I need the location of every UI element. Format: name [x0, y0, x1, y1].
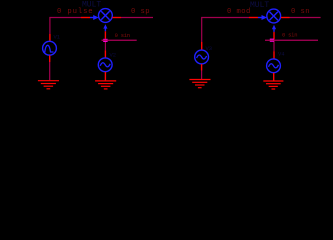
ground (under V1) — [38, 81, 59, 89]
pin stub (V1 bottom, red) — [49, 55, 51, 62]
svg-text:0 sin: 0 sin — [115, 32, 130, 39]
svg-text:MULT: MULT — [250, 1, 269, 10]
junction square node 0 sin right — [270, 39, 274, 42]
svg-text:0 sp: 0 sp — [131, 8, 150, 16]
svg-text:MULT: MULT — [82, 1, 101, 10]
pin stub (pulse source V1 top, red) — [49, 34, 51, 42]
multiplier U2 (circle with X) — [267, 9, 281, 23]
pin stub (U1 output, red) — [112, 17, 121, 19]
wire label line 0 sin right — [265, 39, 318, 41]
svg-text:V3: V3 — [206, 45, 213, 52]
pin stub (V3 bottom, red) — [201, 64, 203, 70]
svg-text:0 sin: 0 sin — [282, 32, 297, 39]
multiplier U1 (circle with X) — [99, 9, 113, 23]
pin stub (U1 bottom input, red) — [104, 31, 106, 38]
svg-text:0 mod: 0 mod — [227, 8, 251, 16]
pin stub (V4 bottom to ground, red) — [273, 73, 275, 81]
wire net "0 sn" (output) — [290, 17, 321, 19]
sine source V4 — [267, 59, 281, 73]
pin stub (U2 output, red) — [281, 17, 290, 19]
ground (under V4) — [263, 81, 283, 89]
junction square node 0 sin — [103, 39, 107, 42]
pin stub (sine source V2 top, red) — [104, 50, 106, 58]
ground (under V3) — [189, 80, 210, 88]
pin stub (V2 bottom to ground, red) — [104, 72, 106, 81]
multiplier U1 input arrow (bottom) — [103, 24, 107, 31]
pin stub (sine source V4 top, red) — [273, 51, 275, 59]
pin stub (source V3 top, red) — [201, 42, 203, 50]
pulse source V1 — [43, 41, 57, 55]
sine source V3 — [195, 50, 209, 64]
wire net "0 sin" vertical (to sine source V4) — [273, 39, 275, 51]
wire (V1 bottom to ground) — [49, 62, 51, 80]
pin stub (U2 bottom input, red) — [273, 32, 275, 39]
wire net "0 sp" (output) — [121, 17, 153, 19]
svg-text:V1: V1 — [54, 34, 61, 41]
wire (V3 bottom to ground) — [201, 71, 203, 80]
pin stub (multiplier U1 left input, red) — [81, 17, 90, 19]
wire net "0 mod" (corner from source V3 to multiplier input) — [202, 18, 249, 43]
svg-text:V2: V2 — [110, 52, 117, 59]
svg-text:V4: V4 — [278, 51, 285, 58]
wire net "0 sin" vertical (to sine source V2) — [104, 39, 106, 51]
wire label line 0 sin — [102, 39, 137, 41]
ground (under V2) — [95, 81, 116, 89]
multiplier U1 input arrow (left) — [90, 15, 99, 20]
multiplier U2 input arrow (bottom) — [272, 25, 276, 32]
svg-text:0 sn: 0 sn — [291, 8, 310, 16]
pin stub (multiplier U2 left input, red) — [249, 17, 258, 19]
wire net "0 pulse" (corner from source V1 to multiplier input) — [50, 18, 81, 35]
multiplier U2 input arrow (left) — [258, 15, 267, 20]
sine source V2 — [98, 58, 112, 72]
